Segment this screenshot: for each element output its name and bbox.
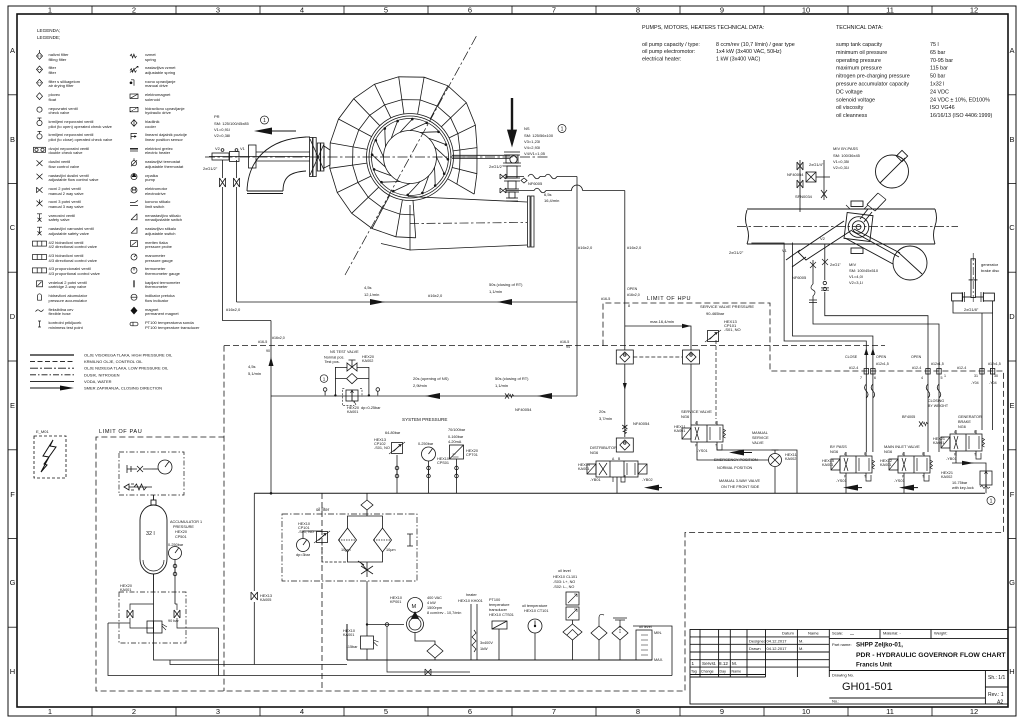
legend symbol PT100 temperature transducer [130,322,138,326]
wire max flow line [625,326,691,350]
svg-text:1kW: 1kW [480,647,488,651]
svg-text:nitrogen pre-charging pressure: nitrogen pre-charging pressure [836,74,910,80]
svg-text:SERVICE: SERVICE [752,436,769,440]
motor pump [407,598,424,633]
pumps motors heaters technical data text [642,25,795,62]
svg-text:2,9l/min: 2,9l/min [413,383,427,388]
svg-text:PDR - HYDRAULIC GOVERNOR FLOW: PDR - HYDRAULIC GOVERNOR FLOW CHART [856,652,1006,659]
legend symbol 4/3 proportional control valve [33,268,47,273]
svg-text:SFN0034: SFN0034 [795,194,813,199]
svg-text:#16x2,0: #16x2,0 [627,245,642,250]
svg-text:dp=3bar: dp=3bar [296,553,311,557]
svg-text:10: 10 [802,6,810,15]
svg-text:20s (opening of NS): 20s (opening of NS) [413,376,449,381]
svg-text:A: A [1009,46,1014,55]
svg-text:—: — [850,631,854,636]
svg-text:MIN.: MIN. [654,631,662,635]
svg-text:LEGENDE;: LEGENDE; [37,35,60,40]
svg-text:7: 7 [552,707,556,716]
svg-text:50 bar: 50 bar [930,74,945,80]
MIV control lines down [751,243,939,453]
svg-text:Name: Name [732,670,742,674]
svg-text:1: 1 [48,6,52,15]
NS valve column (turbine right) [503,98,521,201]
svg-text:24 VDC: 24 VDC [930,89,949,95]
svg-text:94: 94 [566,345,570,349]
svg-text:CPS01: CPS01 [437,461,449,465]
accumulator [140,495,167,592]
legend symbol 4/2 directional control valve [33,241,47,246]
svg-text:V1=4,0l: V1=4,0l [849,274,863,279]
svg-text:-S01, NO: -S01, NO [374,446,390,450]
svg-text:#16-5: #16-5 [258,340,267,344]
legend symbol thermometer [133,280,135,287]
svg-text:2xG1/8": 2xG1/8" [964,307,979,312]
svg-text:6: 6 [468,6,472,15]
svg-text:minimess test point: minimess test point [49,325,84,330]
line sample CONTROL OIL [30,361,74,363]
svg-text:adjustable flow control valve: adjustable flow control valve [49,177,100,182]
svg-text:400 VAC: 400 VAC [427,596,442,600]
line sample LOW PRESSURE OIL [30,367,74,369]
svg-text:linear position sensor: linear position sensor [145,137,183,142]
svg-text:HEX10 KH001: HEX10 KH001 [458,599,483,603]
svg-text:F: F [10,490,15,499]
filter 3way valve [358,561,373,574]
legend symbol nenadjustable switch [131,214,137,220]
svg-text:cartridge 2-way valve: cartridge 2-way valve [49,284,88,289]
svg-text:Weight:: Weight: [934,631,948,636]
svg-text:8: 8 [628,304,630,308]
svg-text:NORMAL POSITION: NORMAL POSITION [717,466,753,470]
svg-text:V2: V2 [820,236,826,241]
arrow down on x625 [623,383,627,390]
line sample WATER [30,380,74,382]
line sample NITROGEN [30,374,74,376]
svg-text:Datum: Datum [782,631,794,636]
electrical supply lightning box [34,429,66,478]
penstock inlet elbow [247,137,310,194]
generator brake valve 4/2 [902,415,982,429]
svg-text:ISO VG46: ISO VG46 [930,105,955,111]
svg-text:G: G [10,578,16,587]
turbine spiral case [330,77,517,238]
svg-text:SERVICE VALVE PRESSURE: SERVICE VALVE PRESSURE [700,304,754,309]
svg-text:ON THE FRONT SIDE: ON THE FRONT SIDE [721,485,760,489]
svg-text:C: C [10,223,16,232]
svg-text:nenadjustable switch: nenadjustable switch [145,217,182,222]
filter bypass relief [407,534,413,546]
svg-text:Drawing No.: Drawing No. [832,673,854,678]
legend symbol minimess test point [38,321,41,327]
svg-text:DUSIK, NITROGEN: DUSIK, NITROGEN [84,372,120,377]
legend symbol filter [37,66,43,73]
shutoff valve on NS line 1 [500,174,506,193]
svg-text:1: 1 [48,707,52,716]
svg-text:pump: pump [145,177,156,182]
legend symbol pressure accumulator [38,294,42,300]
svg-text:KA001: KA001 [674,429,685,433]
labels y302 [226,245,642,376]
butterfly valve MIV trunnion hub [844,201,873,254]
svg-text:SYSTEM PRESSURE: SYSTEM PRESSURE [402,417,447,422]
svg-text:3: 3 [216,6,220,15]
legend symbol check valve [37,107,42,112]
filler breather [591,614,628,660]
svg-text:4-20mA: 4-20mA [448,440,462,444]
drain valve line [385,623,470,675]
svg-text:T: T [974,453,976,457]
arrow on y302 [370,299,385,305]
svg-text:1x4 kW (3x400 VAC, 50Hz): 1x4 kW (3x400 VAC, 50Hz) [716,49,782,55]
generator brake disc [952,253,995,302]
svg-text:PUMPS, MOTORS, HEATERS TECHNI: PUMPS, MOTORS, HEATERS TECHNICAL DATA: [642,25,764,31]
svg-text:#12x1,5: #12x1,5 [931,362,944,366]
svg-text:oil temperature: oil temperature [522,604,547,608]
svg-text:H: H [10,667,15,676]
svg-text:sump tank capacity: sump tank capacity [836,42,882,48]
svg-text:V3=1,23l: V3=1,23l [524,139,540,144]
svg-text:E: E [1009,401,1014,410]
svg-text:with key-lock: with key-lock [952,486,974,490]
svg-text:KA001: KA001 [120,588,131,592]
svg-text:PT100 temperature transducer: PT100 temperature transducer [145,325,200,330]
svg-text:31: 31 [974,374,978,378]
svg-text:Designed: Designed [749,639,766,644]
legend symbol float [37,93,43,100]
svg-text:1: 1 [990,499,993,505]
svg-text:A2: A2 [997,700,1003,706]
svg-text:16/16/13 (ISO 4406:1999): 16/16/13 (ISO 4406:1999) [930,113,993,119]
svg-text:NS TEST VALVE: NS TEST VALVE [330,350,359,354]
svg-text:Tag: Tag [691,670,697,674]
legend title [37,28,60,40]
svg-text:CP501: CP501 [175,535,187,539]
legend symbol adjustable thermostat [131,158,137,166]
svg-text:electric heater: electric heater [145,150,171,155]
svg-text:11: 11 [886,707,894,716]
svg-text:Servst.: Servst. [702,661,716,666]
valves 2xG1/2 under servomotor [220,149,272,321]
test loop check diamond [347,374,358,384]
svg-text:10μm: 10μm [341,548,351,552]
svg-text:double check valve: double check valve [49,150,84,155]
svg-text:PRESSURE: PRESSURE [173,525,194,529]
svg-text:5: 5 [384,707,388,716]
svg-text:7: 7 [552,6,556,15]
legend symbol flow control valve [37,160,43,166]
svg-text:LIMIT OF HPU: LIMIT OF HPU [647,296,691,302]
distributor 4/3 proportional valve [587,461,647,482]
svg-text:pressure accumulator capacity: pressure accumulator capacity [836,82,909,88]
svg-text:BF4005: BF4005 [902,415,915,419]
emergency/normal labels [729,450,744,456]
svg-text:#16x2,0: #16x2,0 [226,307,241,312]
svg-text:2xG1/2": 2xG1/2" [729,250,744,255]
svg-text:1: 1 [323,377,326,382]
svg-text:115 bar: 115 bar [930,66,948,72]
heater [471,604,477,660]
svg-text:-YB01: -YB01 [946,457,957,461]
svg-text:LIMIT OF PAU: LIMIT OF PAU [99,429,142,435]
svg-text:T: T [922,475,924,479]
svg-text:SMER ZAPIRANJA, CLOSING DIRECT: SMER ZAPIRANJA, CLOSING DIRECTION [84,386,162,391]
svg-text:KP001: KP001 [390,600,401,604]
svg-text:electrodrive: electrodrive [145,191,166,196]
svg-text:6: 6 [874,376,876,380]
svg-text:cooler: cooler [145,124,157,129]
svg-text:#12x1,5: #12x1,5 [988,362,1001,366]
svg-text:4: 4 [300,6,304,15]
service valve pressure relief [700,304,754,332]
closing direction arrow [254,128,272,135]
svg-text:0-250bar: 0-250bar [418,442,434,446]
svg-text:KA001: KA001 [822,463,833,467]
svg-text:No.:: No.: [832,699,839,704]
svg-text:TECHNICAL DATA:: TECHNICAL DATA: [836,25,883,31]
svg-text:KA001: KA001 [343,633,354,637]
svg-text:thermometer gauge: thermometer gauge [145,271,181,276]
svg-text:Material: -: Material: - [883,631,901,636]
svg-text:12,1/min: 12,1/min [364,292,379,297]
svg-text:8 ccm/rev - 10,7/min: 8 ccm/rev - 10,7/min [427,611,461,615]
legend symbol safety valve [37,214,42,222]
svg-text:oil cleanness: oil cleanness [836,113,867,119]
svg-text:1500rpm: 1500rpm [427,606,442,610]
svg-text:C: C [1009,223,1015,232]
svg-text:MIV: MIV [849,262,856,267]
svg-text:ACCUMULATOR 1: ACCUMULATOR 1 [170,520,202,524]
suction strainer [415,633,443,661]
legend symbol hydraulic drive [130,107,138,111]
svg-text:7: 7 [860,376,862,380]
svg-text:2xG1/2": 2xG1/2" [203,166,218,171]
filter gauge + switch [297,539,310,552]
svg-text:permanent magnet: permanent magnet [145,311,179,316]
PT100 [492,621,507,660]
svg-text:OLJE VISOKEGA TLAKA, HIGH PRES: OLJE VISOKEGA TLAKA, HIGH PRESSURE OIL [84,353,173,358]
svg-text:-S03: L+, NO: -S03: L+, NO [553,580,575,584]
line type legend [30,353,173,391]
svg-text:GH01-501: GH01-501 [842,681,893,693]
svg-text:10-75bar: 10-75bar [952,481,968,485]
svg-text:#12-4: #12-4 [849,366,858,370]
legend symbol electrodrive [131,187,137,193]
svg-text:V4/V1=1,05: V4/V1=1,05 [524,151,546,156]
svg-text:4 kW: 4 kW [427,601,436,605]
svg-text:oil pump electromotor:: oil pump electromotor: [642,49,695,55]
svg-text:4/3 proportional control valve: 4/3 proportional control valve [49,271,101,276]
test valve (manual bowtie) [347,360,357,371]
svg-text:NF6005: NF6005 [792,275,807,280]
svg-text:adjustable spring: adjustable spring [145,70,175,75]
svg-text:4: 4 [921,376,923,380]
svg-text:1: 1 [944,374,946,378]
svg-text:oil level: oil level [558,569,571,573]
legend column 2 [130,52,200,330]
legend symbol double check valve [34,147,46,152]
svg-text:MANUAL: MANUAL [752,431,768,435]
svg-text:10: 10 [802,707,810,716]
legend symbol permanent magnet [131,307,137,314]
filter diamonds [339,528,392,552]
oil filter dashed box [282,514,417,581]
line sample CLOSING DIRECTION [30,387,60,389]
svg-text:#16-5: #16-5 [601,297,610,301]
svg-text:oil viscosity: oil viscosity [836,105,864,111]
svg-text:H: H [1009,667,1014,676]
pressure reducing valve brake [980,471,992,489]
check diamond [361,500,373,510]
svg-text:adjustable safety valve: adjustable safety valve [49,231,90,236]
node 1 circled [261,116,269,124]
svg-text:1 kW (3x400 VAC): 1 kW (3x400 VAC) [716,56,760,62]
pump relief [361,595,379,660]
svg-text:BY WEIGHT: BY WEIGHT [928,404,949,408]
test points on main line [323,388,379,396]
legend symbol flexible hose [36,310,44,312]
svg-text:flexible hose: flexible hose [49,311,72,316]
line sample HIGH PRESSURE OIL [30,354,74,356]
svg-text:DC voltage: DC voltage [836,89,863,95]
dp compensator square [342,389,362,406]
svg-text:-YB02: -YB02 [642,478,653,482]
manual 3-way service valve [769,450,782,467]
svg-text:KRMILNO OLJE, CONTROL OIL: KRMILNO OLJE, CONTROL OIL [84,359,143,364]
svg-text:8: 8 [636,707,640,716]
legend symbol adjustable safety valve [37,227,42,235]
port connector markers on dashed boundary [864,369,995,375]
svg-text:V1: V1 [782,248,788,253]
legend symbol adjustable switch [131,227,137,233]
svg-text:Day: Day [720,670,727,674]
svg-text:M.: M. [732,661,737,666]
svg-text:V2=0,31l: V2=0,31l [833,165,849,170]
svg-text:M: M [412,604,417,610]
svg-text:3x400V: 3x400V [480,641,493,645]
svg-text:generator: generator [981,262,999,267]
svg-text:Test pos.: Test pos. [325,360,340,364]
sq diamond components x625/x691 [616,350,633,364]
node 1 circled right of NS [558,125,566,133]
svg-text:operating pressure: operating pressure [836,58,881,64]
svg-text:10μm: 10μm [386,548,396,552]
svg-text:KA002: KA002 [941,475,952,479]
svg-text:#16x2,0: #16x2,0 [578,245,593,250]
legend symbol air drying filter [37,79,43,86]
servomotor PR [209,138,330,177]
svg-text:1: 1 [692,661,695,666]
svg-text:minimum oil pressure: minimum oil pressure [836,50,887,56]
svg-text:Sh.: 1/1: Sh.: 1/1 [988,675,1005,681]
svg-text:V2: V2 [215,146,221,151]
svg-text:KA001: KA001 [578,467,589,471]
svg-text:4/3 directional control valve: 4/3 directional control valve [49,258,98,263]
legend symbol adjustable spring [130,66,138,72]
svg-text:2xG1/2": 2xG1/2" [489,164,504,169]
MIV counterweight arm [786,221,852,267]
svg-text:5: 5 [941,376,943,380]
svg-text:8 ccm/rev (10,7 l/min) / gear: 8 ccm/rev (10,7 l/min) / gear type [716,42,795,48]
svg-text:V1: V1 [240,146,246,151]
svg-text:90-465bar: 90-465bar [706,311,725,316]
svg-text:1x32 l: 1x32 l [930,82,944,88]
svg-text:MIV BY-PASS: MIV BY-PASS [833,146,858,151]
svg-text:12: 12 [970,6,978,15]
svg-text:4: 4 [300,707,304,716]
svg-text:NF40054: NF40054 [515,407,532,412]
svg-text:-YS01: -YS01 [836,479,847,483]
oil thermometer [528,619,542,660]
turbine centerline horizontal [205,156,548,158]
legend symbol 4/3 directional control valve [33,255,47,260]
svg-text:-YS01: -YS01 [697,449,708,453]
svg-text:KA001: KA001 [880,463,891,467]
svg-text:MAX.: MAX. [654,658,663,662]
arrow to tank under distributor [644,485,659,491]
svg-text:adjustable thermostat: adjustable thermostat [145,164,184,169]
svg-text:70/100bar: 70/100bar [448,428,466,432]
svg-text:brake disc: brake disc [981,268,999,273]
svg-text:filling filter: filling filter [49,57,67,62]
svg-text:V2=3,1l: V2=3,1l [849,280,863,285]
svg-text:LEGENDA;: LEGENDA; [37,28,60,33]
svg-text:11: 11 [886,6,894,15]
legend symbol solenoid [130,94,138,98]
svg-text:adjustable switch: adjustable switch [145,231,175,236]
svg-text:SM: 100/45x510: SM: 100/45x510 [849,268,879,273]
legend symbol manual drive [130,80,134,86]
svg-text:limit switch: limit switch [145,204,164,209]
svg-text:#12-4: #12-4 [912,366,921,370]
svg-text:-S01, NO: -S01, NO [724,327,741,332]
svg-text:Change: Change [701,670,714,674]
wire x625 down [624,191,626,438]
wire NS line2 y191.6 [506,185,625,193]
svg-text:temperature: temperature [489,603,509,607]
svg-text:50s (closing of RT): 50s (closing of RT) [489,282,523,287]
svg-text:manual 3 way valve: manual 3 way valve [49,204,85,209]
svg-text:16,4/min: 16,4/min [544,198,559,203]
revision table [699,630,701,678]
dashed boundary HPU [96,303,1004,691]
svg-text:12: 12 [970,707,978,716]
svg-text:Name: Name [808,631,819,636]
control line hoses below dashed [865,384,941,398]
svg-text:#12x1,5: #12x1,5 [876,362,889,366]
svg-text:max.16,4/min: max.16,4/min [650,319,674,324]
svg-text:-YB01: -YB01 [590,478,601,482]
legend symbol pressure gauge [131,254,137,260]
bypass valve manifold above [797,160,830,212]
svg-text:hydraulic drive: hydraulic drive [145,110,172,115]
svg-text:2xG1/4": 2xG1/4" [809,162,824,167]
svg-text:HEX10 CTS01: HEX10 CTS01 [489,613,514,617]
svg-text:filter: filter [49,70,57,75]
svg-text:KA005: KA005 [260,598,271,602]
svg-text:Normal pos.: Normal pos. [324,356,344,360]
svg-text:1,1/min: 1,1/min [489,289,502,294]
legend symbol manual 3 way valve [37,199,43,206]
wire x577 down [576,177,578,397]
svg-text:1,1/min: 1,1/min [495,383,508,388]
svg-text:safety valve: safety valve [49,217,71,222]
main inlet valve pipe [737,209,958,244]
legend symbol filling filter [37,50,43,59]
legend symbol cartridge 2-way valve [37,281,43,287]
PAU feed line down from rail [251,493,258,664]
svg-text:5,1/min: 5,1/min [248,371,261,376]
